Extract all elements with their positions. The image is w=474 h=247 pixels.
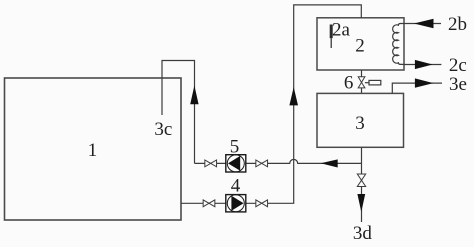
svg-text:3: 3 <box>355 113 365 134</box>
label 3c <box>154 119 172 140</box>
label 2 <box>355 35 365 56</box>
svg-text:2b: 2b <box>448 14 467 35</box>
label 2b <box>448 14 467 35</box>
wire line 4 (pump 4 line from box 1 to box 2 riser) <box>181 5 361 203</box>
wire 2c (outlet from coil) <box>404 64 441 66</box>
wire line 5 (pump 5 suction line from box 3 junction to riser) <box>195 159 362 163</box>
actuator of valve 6 (small box) <box>365 80 381 85</box>
valve 6 <box>358 77 365 88</box>
wire 3e (from box 3 top to the right) <box>392 83 442 93</box>
wire from box 3 bottom down to drain 3d <box>361 147 363 222</box>
svg-text:3e: 3e <box>449 74 467 95</box>
svg-text:6: 6 <box>344 73 354 94</box>
arrow up on wire 3c riser <box>190 86 198 105</box>
wire 2b (inlet to coil) <box>404 23 441 25</box>
svg-text:2: 2 <box>355 35 365 56</box>
label 3d <box>353 223 373 244</box>
arrow up on line 4 riser <box>289 87 298 105</box>
label 3 <box>355 113 365 134</box>
arrow right on wire 3e <box>415 78 434 87</box>
label 4 <box>231 176 241 197</box>
valve on line 5 right <box>256 160 268 167</box>
valve on line 4 right <box>256 200 268 207</box>
svg-text:4: 4 <box>231 176 241 197</box>
svg-text:2a: 2a <box>332 19 351 40</box>
svg-text:5: 5 <box>230 137 240 158</box>
arrow right on wire 2c <box>415 60 433 69</box>
arrow down on 3d wire <box>357 194 365 212</box>
label 1 <box>88 140 98 161</box>
label 3e <box>449 74 467 95</box>
svg-text:1: 1 <box>88 140 98 161</box>
drain valve on 3d wire <box>357 174 365 187</box>
pump 4 (flow right) <box>226 195 246 212</box>
svg-text:3d: 3d <box>353 223 373 244</box>
wire between box 2 and box 3 through valve 6 <box>361 70 363 93</box>
box 2 (heater tank 2) <box>317 18 404 70</box>
box 1 (tank 1) <box>5 78 182 220</box>
box 3 (tank 3) <box>317 93 404 147</box>
pump 5 (flow left) <box>226 155 246 172</box>
sensor 2a (electrode/level probe) <box>330 25 333 49</box>
valve on line 4 left <box>203 200 215 207</box>
label 5 <box>230 137 240 158</box>
label 2c <box>449 55 467 76</box>
label 2a <box>332 19 351 40</box>
arrow left on line 5 <box>321 159 338 167</box>
valve on line 5 left <box>205 160 217 167</box>
wire 3c (return pipe from pump 5 into box 1) <box>162 61 195 164</box>
svg-text:3c: 3c <box>154 119 172 140</box>
heating coil in box 2 <box>393 24 404 65</box>
label 6 <box>344 73 354 94</box>
arrow left on wire 2b <box>414 19 434 29</box>
